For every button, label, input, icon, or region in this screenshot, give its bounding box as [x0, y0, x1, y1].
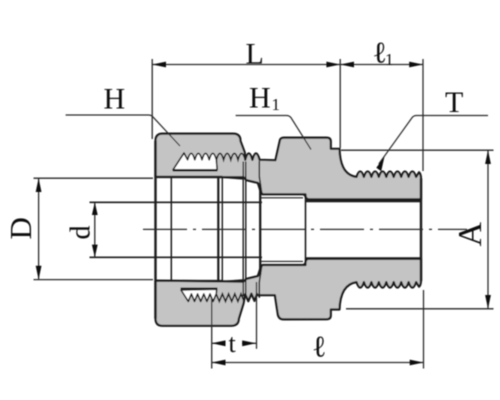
ferrule interface lines: [242, 162, 244, 297]
nut recess inner line: [170, 177, 172, 281]
nut shoulder face: [217, 177, 219, 283]
meshed thread zigzag lower: [216, 294, 244, 302]
wedge bottom thick edge upper: [173, 169, 218, 171]
body counterbore left edge: [259, 185, 261, 275]
svg-text:H: H: [249, 82, 271, 115]
nut left face: [154, 141, 156, 319]
extension line L/l1 middle: [339, 59, 341, 148]
back ferrule top edge: [224, 177, 243, 179]
svg-text:A: A: [452, 222, 489, 247]
tube bore bottom line: [90, 256, 263, 258]
nut recess bottom edge: [156, 280, 223, 282]
extension line L left: [151, 59, 153, 139]
dimension l1 line: [340, 64, 423, 66]
meshed thread zigzag upper: [216, 153, 245, 159]
back ferrule front edge: [221, 177, 223, 282]
right end face: [420, 179, 422, 282]
leader H: [66, 115, 180, 146]
leader T with arrow: [379, 116, 488, 165]
svg-text:1: 1: [272, 95, 281, 114]
tube bore top line: [90, 201, 263, 203]
dimension D line: [38, 178, 40, 279]
svg-text:T: T: [445, 86, 463, 119]
front ferrule bottom edge and nose: [247, 268, 261, 279]
svg-text:ℓ: ℓ: [312, 331, 326, 364]
nut thread relief wedge upper (white): [173, 153, 217, 170]
front ferrule top edge and nose: [247, 180, 261, 191]
svg-text:1: 1: [385, 50, 394, 69]
body counterbore outline: [261, 194, 306, 265]
svg-text:D: D: [3, 217, 38, 239]
counterbore chamfer lines: [261, 197, 303, 199]
svg-text:t: t: [229, 329, 237, 358]
dimension t line: [212, 342, 226, 344]
svg-text:L: L: [246, 38, 264, 71]
body mouth face upper: [259, 161, 262, 194]
body mouth face lower: [259, 266, 262, 298]
nut thread relief wedge lower (white): [181, 289, 217, 301]
dimension l line: [212, 362, 424, 364]
dimension L line: [34, 59, 494, 369]
extension line l1 right: [422, 59, 424, 171]
bore top line: [306, 200, 421, 203]
centerline: [143, 228, 467, 230]
dimension d line: [94, 202, 96, 257]
back ferrule bottom edge: [224, 280, 243, 282]
dimension A line: [487, 150, 489, 309]
svg-text:d: d: [66, 226, 97, 240]
bore bottom line: [306, 257, 421, 260]
svg-text:H: H: [104, 83, 126, 116]
fitting body+nut upper cross-section (gray): [156, 134, 422, 200]
nut recess top edge: [156, 176, 223, 178]
wedge bottom thick edge lower: [181, 287, 218, 289]
leader H1: [236, 116, 311, 150]
fitting body+nut lower cross-section (gray): [156, 259, 422, 326]
